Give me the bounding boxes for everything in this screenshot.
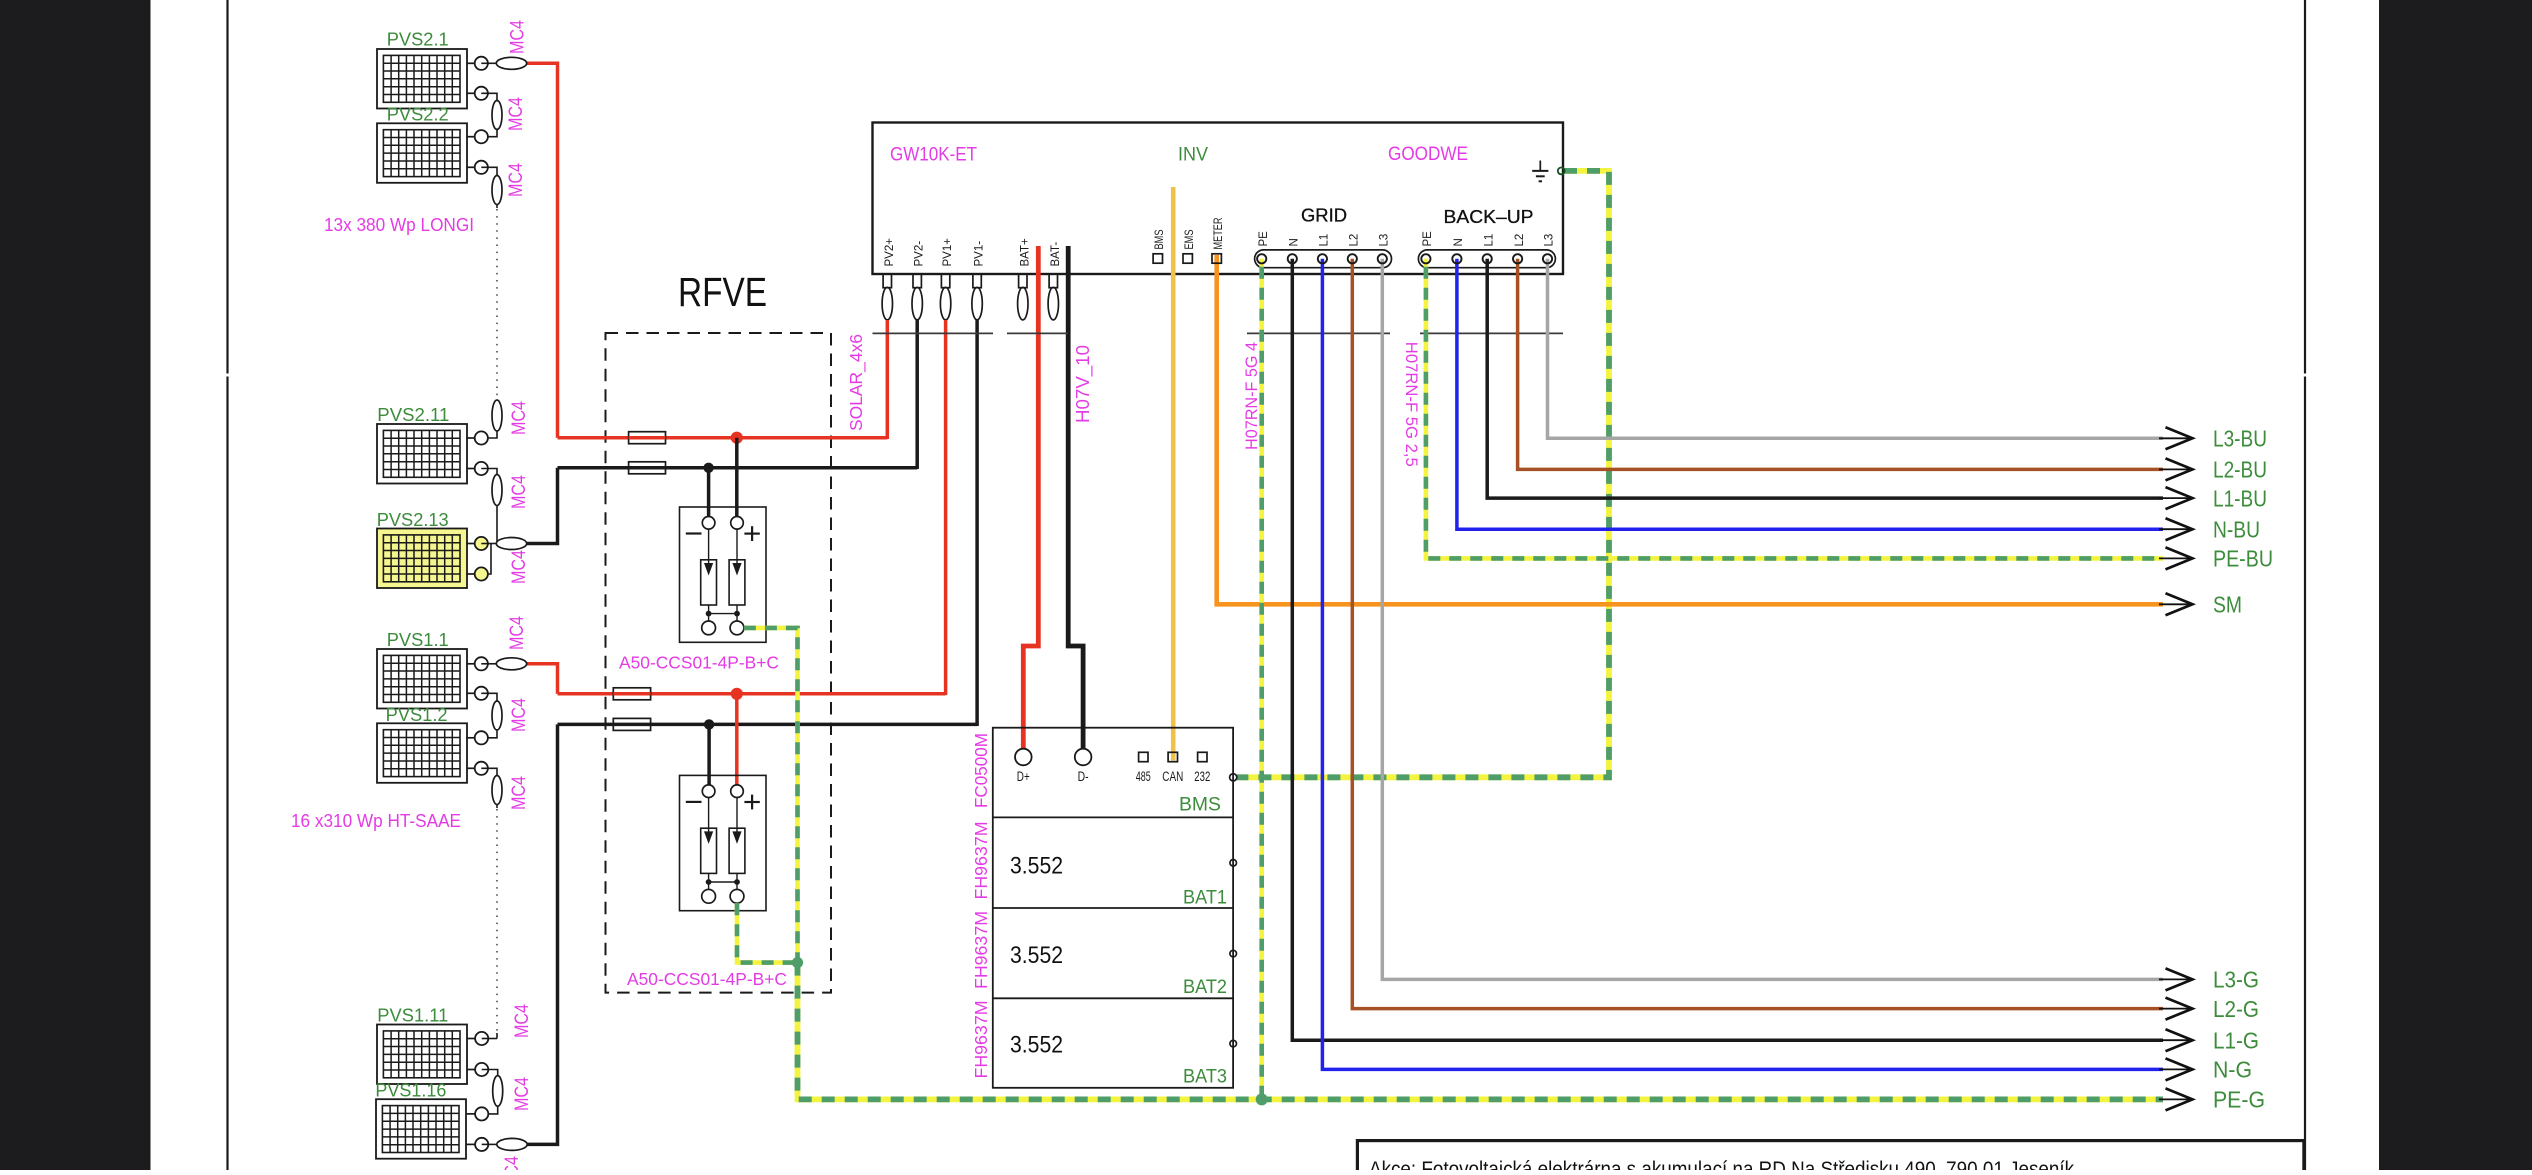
svg-text:EMS: EMS bbox=[1184, 229, 1196, 249]
connector PVS1.11 + bbox=[467, 1038, 476, 1040]
svg-text:H07V_10: H07V_10 bbox=[1073, 345, 1094, 423]
svg-text:L3: L3 bbox=[1544, 234, 1556, 247]
wire battery - (thick black) bbox=[1068, 246, 1083, 748]
wire BACK-UP N (blue) bbox=[1457, 259, 2163, 529]
wire GRID L2 (brown) to L2-G bbox=[1352, 259, 2163, 1009]
svg-text:METER: METER bbox=[1213, 218, 1225, 250]
GRID terminal PE bbox=[1257, 254, 1266, 263]
GRID terminal L1 bbox=[1318, 254, 1327, 263]
svg-text:BACK–UP: BACK–UP bbox=[1444, 206, 1534, 227]
wire: lead to disconnect 1 (+) bbox=[735, 438, 739, 517]
svg-text:PVS2.13: PVS2.13 bbox=[377, 510, 449, 530]
MC4 connector (PVS2.1- to PVS2.2+) bbox=[481, 93, 497, 101]
GRID terminal strip bbox=[1255, 250, 1392, 268]
BACK-UP terminal L3 bbox=[1543, 254, 1552, 263]
svg-text:PV1+: PV1+ bbox=[942, 238, 954, 267]
svg-text:L2-BU: L2-BU bbox=[2213, 457, 2267, 483]
terminal D- bbox=[1075, 749, 1092, 766]
connector PVS1.2 - bbox=[466, 767, 475, 769]
terminal PV2- bbox=[913, 274, 921, 288]
svg-text:FC0500M: FC0500M bbox=[971, 733, 991, 808]
fuse F2 (string2 -) bbox=[629, 462, 666, 474]
MC4 connector (PVS2.2-) bbox=[481, 167, 497, 175]
svg-text:BAT1: BAT1 bbox=[1183, 888, 1227, 909]
svg-text:GOODWE: GOODWE bbox=[1388, 144, 1468, 165]
MC4 connector (PVS1.1+) bbox=[481, 663, 496, 665]
BAT2/BAT3 divider bbox=[993, 997, 1233, 999]
connector PVS2.2 + bbox=[466, 136, 475, 138]
RFVE dashed enclosure bbox=[606, 333, 832, 993]
arrow exit L3-BU bbox=[2159, 437, 2191, 439]
BAT3 terminal bbox=[1230, 1040, 1237, 1047]
MC4 connector (string1 output) bbox=[482, 1143, 498, 1145]
svg-text:BMS: BMS bbox=[1154, 229, 1166, 249]
wire: red bus y=437.7 bbox=[558, 436, 888, 440]
svg-text:3.552: 3.552 bbox=[1010, 853, 1063, 880]
svg-text:16 x310 Wp HT-SAAE: 16 x310 Wp HT-SAAE bbox=[291, 811, 461, 831]
arrow exit SM bbox=[2159, 603, 2191, 605]
arrow exit L1-G bbox=[2159, 1039, 2191, 1041]
svg-text:BAT-: BAT- bbox=[1050, 242, 1062, 267]
wire BACK-UP L2 (brown) bbox=[1518, 259, 2163, 470]
svg-text:3.552: 3.552 bbox=[1010, 1032, 1063, 1059]
BACK-UP terminal L2 bbox=[1513, 254, 1522, 263]
svg-text:GW10K-ET: GW10K-ET bbox=[890, 145, 977, 166]
connector PVS2.11 + bbox=[466, 437, 475, 439]
svg-text:PV1-: PV1- bbox=[974, 241, 986, 267]
PE wire from disconnect 1 bbox=[744, 628, 798, 963]
panel PVS2.2 bbox=[377, 123, 467, 183]
terminal D+ bbox=[1015, 749, 1032, 766]
junction on red bus bbox=[731, 432, 743, 444]
wire: string2 negative (black) PVS2.13 to fuse to PV2- bbox=[527, 468, 558, 544]
svg-text:MC4: MC4 bbox=[512, 1004, 533, 1038]
svg-text:L3-G: L3-G bbox=[2213, 967, 2259, 993]
svg-text:PE: PE bbox=[1258, 231, 1270, 247]
svg-text:MC4: MC4 bbox=[509, 550, 530, 584]
connector PVS2.1 + bbox=[466, 62, 475, 64]
svg-text:3.552: 3.552 bbox=[1010, 942, 1063, 969]
svg-text:MC4: MC4 bbox=[508, 20, 529, 54]
title block bbox=[1357, 1141, 2303, 1175]
wire BACK-UP PE bbox=[1426, 259, 2163, 559]
MC4 connector (PVS1.11- to PVS1.16+) bbox=[482, 1070, 498, 1076]
right frame border line bbox=[2304, 0, 2306, 374]
MC4 connector (PVS2.11- down to PVS2.13) bbox=[481, 469, 497, 475]
wire BMS comm (yellow) bbox=[1171, 187, 1176, 761]
svg-text:PVS2.2: PVS2.2 bbox=[387, 105, 449, 125]
BAT1/BAT2 divider bbox=[993, 907, 1233, 909]
connector PVS1.16 + bbox=[467, 1113, 476, 1115]
svg-text:SOLAR_4x6: SOLAR_4x6 bbox=[846, 334, 867, 431]
svg-text:MC4: MC4 bbox=[506, 97, 527, 131]
wire: black lead to disconnect 2 (-) bbox=[707, 724, 711, 785]
svg-text:MC4: MC4 bbox=[509, 776, 530, 810]
svg-text:MC4: MC4 bbox=[509, 401, 530, 435]
wire METER (orange) to SM bbox=[1217, 255, 2163, 604]
dotted string continuation bbox=[496, 209, 498, 399]
svg-text:L1: L1 bbox=[1319, 234, 1331, 247]
PE trunk from inverter ground to battery BMS bbox=[1237, 171, 1609, 777]
MC4 connector (chain to PVS2.11) bbox=[492, 400, 502, 431]
panel PVS1.1 bbox=[377, 649, 467, 709]
connector PVS1.1 - bbox=[466, 692, 475, 694]
BAT1 terminal bbox=[1230, 860, 1237, 867]
ground terminal circle bbox=[1558, 168, 1565, 175]
svg-text:PVS1.11: PVS1.11 bbox=[377, 1006, 448, 1026]
arrow exit L1-BU bbox=[2159, 497, 2191, 499]
wire joint PVS2.13 output bbox=[488, 544, 491, 575]
svg-text:D+: D+ bbox=[1017, 769, 1030, 784]
GRID terminal L3 bbox=[1378, 254, 1387, 263]
wire GRID N (black) to L1-G bbox=[1292, 259, 2163, 1040]
port CAN bbox=[1168, 752, 1177, 761]
terminal PV1+ bbox=[941, 274, 949, 288]
right black margin bar bbox=[2379, 0, 2532, 1170]
svg-text:PVS1.2: PVS1.2 bbox=[386, 705, 448, 725]
battery cabinet bbox=[993, 728, 1233, 1088]
PE junction at GRID PE / trunk bbox=[1256, 1093, 1268, 1105]
svg-text:L2: L2 bbox=[1514, 234, 1526, 247]
svg-text:N-G: N-G bbox=[2213, 1057, 2252, 1083]
panel PVS2.11 bbox=[377, 424, 467, 484]
arrow exit N-G bbox=[2159, 1068, 2191, 1070]
terminal PV2+ bbox=[883, 274, 891, 288]
connector PVS1.1 + bbox=[466, 663, 475, 665]
svg-text:RFVE: RFVE bbox=[678, 269, 767, 315]
svg-text:232: 232 bbox=[1194, 769, 1210, 784]
wire battery + (thick red) bbox=[1023, 246, 1038, 748]
terminal PV1- bbox=[973, 274, 981, 288]
arrow exit N-BU bbox=[2159, 528, 2191, 530]
connector PVS1.11 - bbox=[467, 1069, 476, 1071]
svg-text:485: 485 bbox=[1136, 769, 1151, 784]
GRID terminal L2 bbox=[1348, 254, 1357, 263]
svg-text:MC4: MC4 bbox=[502, 1156, 523, 1170]
connector PVS2.13 + bbox=[466, 543, 475, 545]
arrow exit L3-G bbox=[2159, 978, 2191, 980]
wire PV1+ (red) bbox=[944, 320, 948, 695]
checkbox BMS bbox=[1153, 254, 1162, 263]
PE trunk down and to PE-G arrow bbox=[798, 963, 2164, 1100]
svg-text:N: N bbox=[1289, 238, 1301, 246]
wire PV2+ (red) bbox=[886, 320, 890, 439]
svg-text:SM: SM bbox=[2213, 592, 2242, 618]
wire: string1 positive (red) PVS1.1 to fuse to PV1+ bbox=[527, 664, 558, 694]
arrow exit PE-G bbox=[2159, 1098, 2191, 1100]
svg-text:PVS1.16: PVS1.16 bbox=[375, 1080, 446, 1100]
BMS/BAT1 divider bbox=[993, 816, 1233, 818]
svg-text:A50-CCS01-4P-B+C: A50-CCS01-4P-B+C bbox=[627, 969, 787, 989]
svg-text:L3-BU: L3-BU bbox=[2213, 426, 2267, 452]
svg-text:CAN: CAN bbox=[1162, 769, 1183, 784]
svg-text:L2-G: L2-G bbox=[2213, 996, 2259, 1022]
fuse F4 (string1 -) bbox=[613, 718, 650, 730]
svg-text:PE-BU: PE-BU bbox=[2213, 546, 2273, 572]
GRID terminal N bbox=[1288, 254, 1297, 263]
BACK-UP terminal L1 bbox=[1483, 254, 1492, 263]
svg-text:FH9637M: FH9637M bbox=[971, 822, 991, 900]
svg-text:L3: L3 bbox=[1379, 234, 1391, 247]
MC4 connector (PVS2.1+) bbox=[481, 62, 496, 64]
wire PV2- (black) bbox=[915, 320, 919, 469]
wire: black bus y=724.4 bbox=[558, 723, 978, 727]
wire GRID L3 (grey) to L3-G bbox=[1382, 259, 2163, 980]
connector PVS1.16 - bbox=[467, 1143, 476, 1145]
connector PVS2.13 - bbox=[466, 573, 475, 575]
panel PVS1.16 bbox=[376, 1099, 466, 1159]
svg-text:PE-G: PE-G bbox=[2213, 1087, 2265, 1113]
junction on black bus bbox=[703, 463, 713, 473]
MC4 connector (PVS1.1- to PVS1.2+) bbox=[481, 693, 497, 701]
connector PVS2.1 - bbox=[466, 92, 475, 94]
BACK-UP terminal N bbox=[1452, 254, 1461, 263]
svg-text:H07RN-F 5G 2,5: H07RN-F 5G 2,5 bbox=[1402, 342, 1421, 467]
left frame border line bbox=[226, 0, 228, 374]
BACK-UP terminal strip bbox=[1418, 250, 1555, 268]
svg-text:PE: PE bbox=[1422, 231, 1434, 247]
junction on red bus bbox=[731, 688, 743, 700]
svg-text:H07RN-F 5G 4: H07RN-F 5G 4 bbox=[1242, 342, 1261, 450]
svg-text:PV2-: PV2- bbox=[914, 241, 926, 267]
svg-text:MC4: MC4 bbox=[509, 475, 530, 509]
BMS PE terminal bbox=[1230, 774, 1237, 781]
arrow exit L2-BU bbox=[2159, 468, 2191, 470]
panel PVS2.13 (highlighted) bbox=[377, 529, 467, 589]
panel PVS1.2 bbox=[377, 723, 467, 783]
disconnect unit A50-CCS01-4P-B+C #1 bbox=[680, 507, 767, 642]
wire: string2 positive (red) PVS2.1 to fuse to PV2+ bbox=[527, 63, 558, 437]
svg-text:MC4: MC4 bbox=[507, 616, 528, 650]
panel PVS1.11 bbox=[377, 1025, 467, 1085]
BACK-UP terminal PE bbox=[1421, 254, 1430, 263]
svg-text:BAT3: BAT3 bbox=[1183, 1067, 1227, 1088]
inverter box GW10K-ET bbox=[873, 123, 1564, 275]
svg-text:BAT+: BAT+ bbox=[1019, 238, 1031, 267]
svg-text:MC4: MC4 bbox=[512, 1077, 533, 1111]
wire BACK-UP L1 (black) bbox=[1487, 259, 2163, 498]
junction on black bus bbox=[704, 719, 714, 729]
wire BACK-UP L3 (grey) bbox=[1548, 259, 2164, 439]
svg-text:N: N bbox=[1453, 238, 1465, 246]
svg-text:L1-BU: L1-BU bbox=[2213, 485, 2267, 511]
svg-text:D-: D- bbox=[1078, 769, 1089, 784]
disconnect unit A50-CCS01-4P-B+C #2 bbox=[680, 775, 767, 910]
svg-text:BAT2: BAT2 bbox=[1183, 977, 1227, 998]
label MC4 (chain to PVS1.11) bbox=[496, 1033, 498, 1039]
checkbox METER bbox=[1212, 254, 1221, 263]
wire GRID PE bbox=[1259, 259, 1264, 1100]
svg-text:BMS: BMS bbox=[1179, 795, 1221, 816]
svg-text:L1-G: L1-G bbox=[2213, 1028, 2259, 1054]
arrow exit L2-G bbox=[2159, 1008, 2191, 1010]
svg-text:Akce: Fotovoltaická elektrárna: Akce: Fotovoltaická elektrárna s akumula… bbox=[1369, 1158, 2074, 1170]
connector PVS2.2 - bbox=[466, 166, 475, 168]
svg-text:PV2+: PV2+ bbox=[884, 238, 896, 267]
svg-text:N-BU: N-BU bbox=[2213, 517, 2260, 543]
svg-text:FH9637M: FH9637M bbox=[971, 911, 991, 989]
wire GRID L1 (blue) to N-G bbox=[1322, 259, 2163, 1070]
svg-text:13x 380 Wp LONGI: 13x 380 Wp LONGI bbox=[324, 215, 474, 235]
wire: string1 negative (black) PVS1.16 to fuse to PV1- bbox=[527, 724, 558, 1144]
svg-text:INV: INV bbox=[1178, 145, 1208, 166]
terminal BAT- bbox=[1049, 274, 1057, 288]
wire: lead to disconnect 1 (-) bbox=[707, 468, 711, 517]
svg-text:PVS2.11: PVS2.11 bbox=[377, 405, 449, 425]
fuse F3 (string1 +) bbox=[613, 688, 650, 700]
svg-text:MC4: MC4 bbox=[506, 163, 527, 197]
port 485 bbox=[1139, 752, 1148, 761]
connector PVS2.11 - bbox=[466, 468, 475, 470]
svg-text:L2: L2 bbox=[1349, 234, 1361, 247]
svg-text:FH9637M: FH9637M bbox=[971, 1001, 991, 1079]
MC4 connector (PVS1.2-) bbox=[481, 768, 497, 775]
BAT2 terminal bbox=[1230, 950, 1237, 957]
svg-text:PVS2.1: PVS2.1 bbox=[387, 30, 449, 50]
svg-text:PVS1.1: PVS1.1 bbox=[387, 630, 449, 650]
svg-text:GRID: GRID bbox=[1301, 205, 1347, 226]
left black margin bar bbox=[0, 0, 151, 1170]
port 232 bbox=[1198, 752, 1207, 761]
PE junction bbox=[792, 957, 803, 968]
arrow exit PE-BU bbox=[2159, 557, 2191, 559]
panel PVS2.1 bbox=[377, 49, 467, 109]
wire: red bus y=693.8 bbox=[558, 692, 946, 696]
svg-text:L1: L1 bbox=[1483, 234, 1495, 247]
PE wire from disconnect 2 bbox=[737, 903, 798, 962]
dotted string continuation bbox=[496, 809, 498, 1033]
MC4 connector (string2 output) bbox=[496, 538, 526, 550]
checkbox EMS bbox=[1183, 254, 1192, 263]
wire: red lead to disconnect 2 (+) bbox=[735, 694, 739, 785]
svg-text:A50-CCS01-4P-B+C: A50-CCS01-4P-B+C bbox=[619, 653, 779, 673]
ground symbol bbox=[1539, 161, 1541, 171]
wire: black bus y=467.8 bbox=[558, 466, 918, 470]
terminal BAT+ bbox=[1019, 274, 1027, 288]
thin boundary line segments bbox=[873, 332, 994, 334]
connector PVS1.2 + bbox=[466, 737, 475, 739]
fuse F1 (string2 +) bbox=[629, 432, 666, 444]
wire PV1- (black) bbox=[975, 320, 979, 726]
svg-text:MC4: MC4 bbox=[509, 698, 530, 732]
